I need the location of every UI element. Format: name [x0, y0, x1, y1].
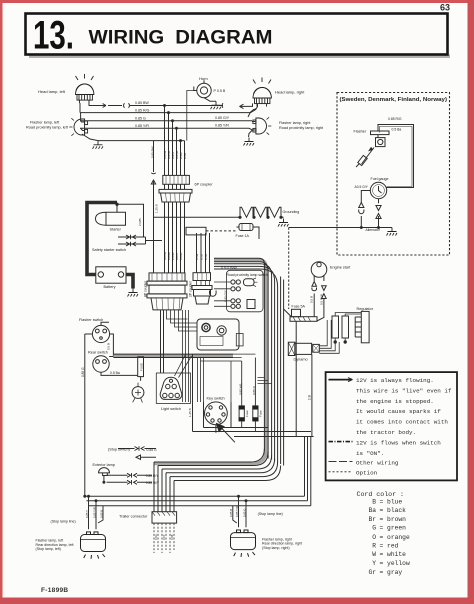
svg-text:1.25 B: 1.25 B [155, 204, 159, 213]
svg-text:Fuse: Fuse [259, 410, 263, 417]
svg-text:Dynamo: Dynamo [294, 358, 308, 362]
svg-text:= gray: = gray [380, 569, 403, 576]
svg-text:Trailer connector: Trailer connector [119, 515, 148, 519]
svg-text:B: B [372, 499, 376, 506]
svg-text:0.85 G: 0.85 G [135, 117, 146, 121]
svg-text:(Stop switch): (Stop switch) [108, 448, 131, 452]
svg-text:Fuse 5A: Fuse 5A [292, 305, 306, 309]
svg-text:P 0.5 B: P 0.5 B [214, 89, 226, 93]
svg-text:Head lamp, right: Head lamp, right [275, 90, 305, 95]
svg-text:2P coupler: 2P coupler [189, 280, 193, 297]
svg-text:Flasher lamp, right: Flasher lamp, right [279, 121, 311, 125]
svg-text:= green: = green [380, 525, 407, 532]
svg-text:Starter: Starter [110, 228, 122, 232]
svg-text:0.5G: 0.5G [195, 254, 199, 260]
svg-text:0.85 R/G: 0.85 R/G [135, 108, 150, 112]
svg-text:Other wiring: Other wiring [356, 459, 399, 466]
svg-text:R: R [372, 543, 376, 550]
svg-text:Light switch: Light switch [161, 407, 181, 411]
svg-text:0.5B: 0.5B [170, 534, 174, 540]
svg-text:0.85 R: 0.85 R [252, 385, 256, 395]
svg-text:0.85 Y/R: 0.85 Y/R [135, 124, 149, 128]
svg-text:Engine start: Engine start [330, 266, 351, 270]
svg-text:G: G [372, 525, 376, 532]
svg-text:0.85 B: 0.85 B [99, 510, 103, 518]
svg-text:0.85 G/Y: 0.85 G/Y [215, 116, 230, 120]
svg-text:0.85 W/Y: 0.85 W/Y [146, 481, 160, 485]
svg-text:FUSE: FUSE [140, 363, 144, 371]
svg-text:0.85 G: 0.85 G [242, 509, 246, 517]
svg-text:Cord color :: Cord color : [357, 491, 404, 498]
svg-text:0.85 W/L: 0.85 W/L [238, 383, 242, 395]
svg-text:= brown: = brown [380, 516, 407, 523]
svg-text:Flasher lamp, left: Flasher lamp, left [30, 121, 60, 125]
svg-text:Gr: Gr [368, 569, 376, 576]
svg-text:Head lamp, left: Head lamp, left [38, 89, 66, 94]
svg-text:Option: Option [356, 470, 378, 477]
svg-text:Regulator: Regulator [357, 307, 374, 311]
svg-text:0.5Y: 0.5Y [162, 534, 166, 540]
svg-text:0.85 G: 0.85 G [81, 367, 85, 377]
svg-text:Grounding: Grounding [283, 210, 300, 214]
svg-text:8P coupler: 8P coupler [143, 280, 147, 297]
svg-text:12V is always flowing.: 12V is always flowing. [356, 377, 434, 384]
svg-text:Alternator: Alternator [366, 228, 381, 232]
svg-text:0.85 G: 0.85 G [147, 448, 158, 452]
svg-text:= blue: = blue [380, 499, 403, 506]
svg-text:0.85 Y/R: 0.85 Y/R [92, 507, 96, 518]
svg-text:W: W [372, 551, 376, 558]
svg-text:0.5 Ba: 0.5 Ba [110, 371, 120, 375]
svg-text:0.5 B: 0.5 B [310, 296, 314, 303]
svg-text:0.85 G/Y: 0.85 G/Y [223, 290, 227, 302]
svg-text:(Stop lamp, left): (Stop lamp, left) [36, 547, 61, 551]
svg-text:= yellow: = yellow [380, 560, 410, 567]
svg-text:0.85 BW: 0.85 BW [135, 101, 149, 105]
svg-text:A0.5 G/Y: A0.5 G/Y [355, 185, 369, 189]
svg-text:it comes into contact with: it comes into contact with [356, 419, 448, 426]
svg-text:0.5B: 0.5B [200, 254, 204, 260]
svg-text:This wire is "live" even if: This wire is "live" even if [356, 387, 452, 394]
svg-text:Flasher: Flasher [354, 130, 367, 134]
svg-text:0.5G: 0.5G [154, 534, 158, 540]
svg-text:0.5 R/W: 0.5 R/W [319, 294, 323, 305]
svg-text:0.85 BW: 0.85 BW [151, 146, 155, 158]
svg-text:1 B: 1 B [308, 395, 312, 400]
svg-text:Battery: Battery [104, 285, 116, 289]
svg-text:is "ON".: is "ON". [356, 450, 384, 457]
svg-text:Exterior lamp: Exterior lamp [93, 463, 115, 467]
svg-text:0.5 G B/W: 0.5 G B/W [221, 266, 237, 270]
svg-text:0.85 Y/R: 0.85 Y/R [215, 123, 229, 127]
svg-text:6P coupler: 6P coupler [195, 183, 214, 187]
svg-text:Key switch: Key switch [207, 397, 225, 401]
svg-text:the engine is stopped.: the engine is stopped. [356, 398, 434, 405]
svg-text:It would cause sparks if: It would cause sparks if [356, 408, 441, 415]
svg-text:0.5R: 0.5R [204, 254, 208, 260]
svg-text:= red: = red [380, 543, 399, 550]
svg-text:Fuse: Fuse [245, 410, 249, 417]
svg-text:0.85 B: 0.85 B [229, 509, 233, 517]
svg-text:the tractor body.: the tractor body. [356, 429, 416, 436]
svg-text:F-1899B: F-1899B [41, 587, 68, 594]
svg-text:13.: 13. [33, 14, 74, 58]
svg-text:Rear switch: Rear switch [88, 351, 108, 355]
svg-text:Road proximity lamp switch: Road proximity lamp switch [227, 273, 268, 277]
svg-text:Y: Y [372, 560, 376, 567]
svg-text:Flasher switch: Flasher switch [79, 318, 103, 322]
svg-text:(Stop lamp line): (Stop lamp line) [258, 512, 283, 516]
svg-text:0.85 Y/R: 0.85 Y/R [235, 506, 239, 517]
svg-text:0.85 R/Y: 0.85 R/Y [146, 474, 159, 478]
svg-text:12V is flows when switch: 12V is flows when switch [356, 439, 441, 446]
svg-text:Horn: Horn [199, 76, 208, 81]
svg-text:O: O [372, 534, 376, 541]
svg-text:2 R/B: 2 R/B [138, 218, 142, 226]
svg-text:0.5 Ba: 0.5 Ba [392, 128, 402, 132]
svg-text:0.85 R/G: 0.85 R/G [388, 117, 402, 121]
svg-text:Fuel gauge: Fuel gauge [371, 177, 389, 181]
svg-text:Road proximity lamp, right: Road proximity lamp, right [279, 126, 324, 130]
svg-text:= orange: = orange [380, 534, 410, 541]
svg-text:0.85 Y: 0.85 Y [85, 510, 89, 518]
svg-text:WIRING DIAGRAM: WIRING DIAGRAM [89, 28, 273, 49]
svg-text:Ba: Ba [368, 507, 376, 514]
svg-text:63: 63 [440, 3, 450, 13]
svg-text:Br: Br [368, 516, 376, 523]
svg-text:0.85R: 0.85R [179, 253, 183, 260]
svg-text:(Sweden, Denmark, Finland, Nor: (Sweden, Denmark, Finland, Norway) [340, 97, 448, 103]
svg-text:(Stop lamp, right): (Stop lamp, right) [262, 546, 290, 550]
svg-text:= black: = black [380, 507, 407, 514]
svg-text:= white: = white [380, 551, 407, 558]
svg-text:0.5 B: 0.5 B [107, 343, 111, 350]
svg-text:1.25 B: 1.25 B [188, 408, 192, 417]
svg-text:Fuse 1A: Fuse 1A [236, 234, 250, 238]
svg-text:Safety starter switch: Safety starter switch [92, 248, 126, 252]
svg-text:0.5B: 0.5B [183, 153, 187, 159]
svg-text:Road proximity lamp, left: Road proximity lamp, left [26, 125, 69, 129]
svg-text:(Stop lamp line): (Stop lamp line) [51, 520, 76, 524]
